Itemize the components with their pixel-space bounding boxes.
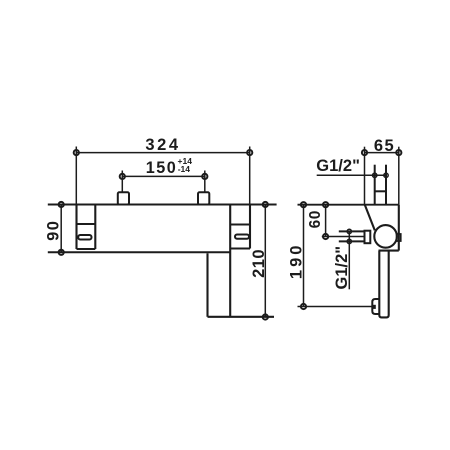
svg-text:G1/2": G1/2" — [333, 246, 351, 290]
dim dot 90 bottom — [59, 250, 64, 255]
dimension line 60 — [325, 205, 327, 237]
side view: top edge with left extension — [298, 204, 399, 206]
front view: body top edge with extension lines — [48, 204, 277, 206]
dim dot 150 right — [202, 174, 207, 179]
side view: body right edge — [398, 205, 400, 251]
leader line G1/2 bottom — [348, 231, 350, 289]
dim dot 150 left — [120, 174, 125, 179]
supply pipe rear (side view) — [374, 165, 376, 205]
extension line 150 left — [121, 171, 123, 193]
svg-text:G1/2": G1/2" — [316, 157, 360, 175]
valve circle — [374, 225, 397, 248]
right end cap / pipe right edge vertical — [229, 205, 231, 317]
inlet nipple left — [118, 192, 129, 204]
right end cap upper line — [230, 223, 250, 225]
dim dot 324 right — [247, 150, 252, 155]
leader dot stub bottom — [347, 239, 351, 243]
dimension line 210 — [264, 205, 266, 318]
shower pipe bottom with extension (front view) — [208, 316, 275, 318]
leader dot pipe rear — [373, 173, 377, 177]
extension line 60 bottom (stub centerline) — [322, 236, 364, 238]
left end cap inner vertical — [94, 205, 96, 250]
dim dot 60 top — [323, 202, 328, 207]
stub nut — [365, 231, 371, 244]
extension line 150 right — [204, 171, 206, 193]
right end cap slot — [235, 235, 249, 239]
dim dot 65 left — [362, 150, 367, 155]
front view: body left edge — [75, 205, 77, 250]
leader dot pipe front — [384, 173, 388, 177]
dim dot 190 top — [301, 202, 306, 207]
dim dot 65 right — [396, 150, 401, 155]
dim dot 90 top — [59, 202, 64, 207]
dim dot 324 left — [74, 150, 79, 155]
svg-text:65: 65 — [374, 137, 395, 155]
front view: body bottom edge with left extension — [48, 251, 230, 253]
extension line 190 bottom — [298, 306, 373, 308]
dimension line 150 — [122, 175, 205, 177]
extension line 65 left — [364, 147, 366, 205]
side view: taper diagonal — [365, 205, 375, 231]
svg-text:-14: -14 — [178, 164, 191, 174]
left end cap upper line — [77, 223, 96, 225]
dim dot 210 bottom — [263, 314, 268, 319]
left end cap slot — [78, 235, 91, 240]
wall bracket bump — [372, 299, 379, 314]
shower pipe (side view) — [379, 251, 388, 318]
dim dot 60 bottom — [323, 234, 328, 239]
dimension line 324 — [76, 152, 249, 154]
extension line 324 right — [249, 147, 251, 205]
svg-text:210: 210 — [250, 249, 268, 278]
inlet nipple right — [198, 192, 209, 204]
svg-text:90: 90 — [45, 220, 63, 241]
shower pipe left edge (front view) — [206, 253, 208, 316]
svg-text:324: 324 — [145, 136, 180, 154]
knob right of circle — [397, 234, 401, 241]
extension line 65 right — [398, 147, 400, 205]
leader dot stub top — [347, 229, 351, 233]
svg-text:60: 60 — [307, 210, 324, 228]
bracket screw mark — [373, 305, 376, 309]
dimension line 190 — [303, 205, 305, 307]
leader line G1/2 top — [317, 174, 386, 176]
dim dot 190 bottom — [301, 304, 306, 309]
dim dot 210 top — [263, 202, 268, 207]
svg-text:190: 190 — [288, 243, 306, 280]
supply stub bottom line — [339, 240, 365, 242]
svg-text:150: 150 — [146, 159, 178, 177]
extension line 324 left — [75, 147, 77, 205]
left end cap bottom line — [77, 248, 96, 250]
side view: body bottom — [379, 250, 399, 252]
front view: body right edge — [249, 205, 251, 249]
dimension line 90 — [60, 205, 62, 253]
supply pipe front (side view) — [385, 165, 387, 205]
dimension line 65 — [365, 152, 399, 154]
supply stub top line — [339, 230, 365, 232]
supply pipes crossbar — [375, 190, 386, 192]
right end cap bottom line — [230, 247, 250, 249]
